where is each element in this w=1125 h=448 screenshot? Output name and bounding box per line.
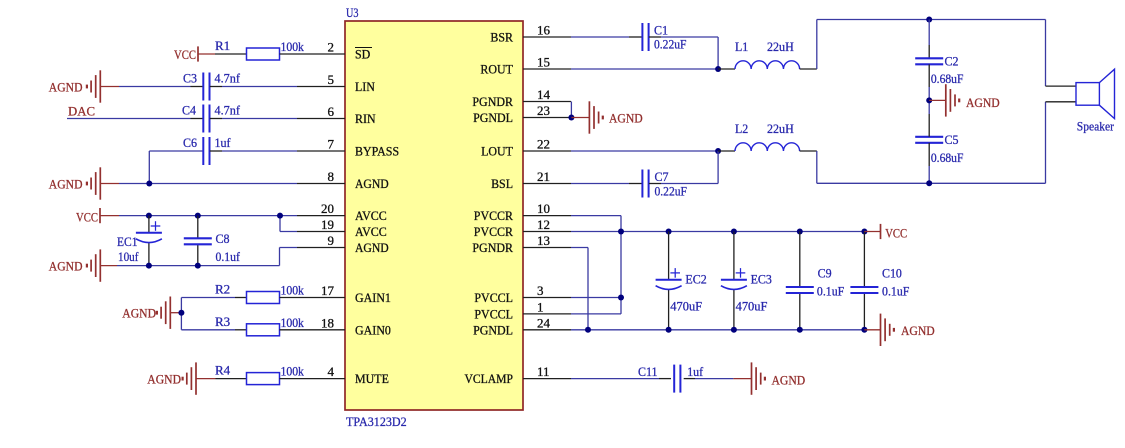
capacitor C8 leads bbox=[197, 216, 199, 239]
pin 22 LOUT (right stub+labels) bbox=[523, 150, 571, 152]
svg-text:16: 16 bbox=[537, 23, 551, 38]
wire pin16 to C1 bbox=[571, 36, 629, 38]
wire speaker stub - bbox=[1046, 101, 1077, 103]
capacitor EC2 bbox=[656, 279, 682, 281]
capacitor C4 bbox=[202, 105, 204, 133]
junction C8 top bbox=[195, 213, 201, 219]
wire R3 left bbox=[181, 329, 235, 331]
svg-text:AGND: AGND bbox=[355, 176, 389, 191]
svg-text:Speaker: Speaker bbox=[1077, 118, 1115, 133]
speaker LS1 symbol bbox=[1076, 83, 1099, 106]
wire L1 riser to top bbox=[816, 20, 818, 70]
wire AVCC top rail bbox=[119, 215, 297, 217]
wire R3 right lead bbox=[280, 329, 298, 331]
junction C9 top bbox=[797, 229, 803, 235]
ground AGND (pin23 row) bbox=[571, 117, 589, 119]
wire GAIN riser bbox=[180, 298, 182, 330]
junction pin19/rail bbox=[277, 213, 283, 219]
wire C7 to LOUT junction bbox=[649, 183, 661, 185]
svg-text:22uH: 22uH bbox=[767, 39, 794, 54]
svg-text:RIN: RIN bbox=[355, 111, 376, 126]
svg-text:AGND: AGND bbox=[609, 111, 643, 126]
wire pin21 to C7 bbox=[571, 183, 629, 185]
junction top wire / C2 bbox=[926, 17, 932, 23]
wire R2 left bbox=[181, 297, 235, 299]
svg-text:100k: 100k bbox=[281, 364, 305, 379]
capacitor C10 bbox=[850, 286, 878, 288]
wire C1 to ROUT junction bbox=[649, 36, 661, 38]
inductor L1 bbox=[735, 61, 800, 69]
junction EC1 bottom bbox=[146, 263, 152, 269]
svg-text:PVCCR: PVCCR bbox=[474, 224, 513, 239]
svg-text:24: 24 bbox=[537, 315, 551, 330]
svg-text:C7: C7 bbox=[655, 169, 669, 184]
wire PVCC riser bbox=[620, 216, 622, 314]
junction C10 top bbox=[861, 229, 867, 235]
pin 1 PVCCL (right stub+labels) bbox=[523, 313, 571, 315]
wire R4 right lead bbox=[280, 378, 298, 380]
svg-text:R1: R1 bbox=[215, 38, 230, 53]
svg-text:VCLAMP: VCLAMP bbox=[465, 371, 514, 386]
wire DAC to C4 bbox=[67, 118, 191, 120]
svg-text:100k: 100k bbox=[281, 39, 305, 54]
junction C6/pin8 bbox=[146, 181, 152, 187]
wire C6 right lead bbox=[210, 150, 222, 152]
svg-text:2: 2 bbox=[328, 40, 335, 55]
svg-text:LOUT: LOUT bbox=[481, 144, 513, 159]
svg-text:AGND: AGND bbox=[49, 80, 83, 95]
svg-text:TPA3123D2: TPA3123D2 bbox=[346, 414, 407, 429]
svg-text:18: 18 bbox=[321, 315, 334, 330]
wire R1 right lead bbox=[280, 53, 298, 55]
wire ROUT to L1 bbox=[571, 68, 718, 70]
svg-text:C9: C9 bbox=[818, 266, 832, 281]
ground AGND (bottom rail) bbox=[99, 249, 101, 281]
ground AGND (C3 row) bbox=[99, 70, 101, 102]
pin 10 PVCCR (right stub+labels) bbox=[523, 215, 571, 217]
ground AGND (GAIN rows) bbox=[169, 297, 171, 329]
svg-text:0.68uF: 0.68uF bbox=[931, 150, 964, 165]
svg-text:C8: C8 bbox=[216, 231, 230, 246]
capacitor EC3 bbox=[721, 279, 747, 281]
svg-text:ROUT: ROUT bbox=[480, 62, 513, 77]
svg-text:11: 11 bbox=[537, 364, 550, 379]
svg-text:GAIN1: GAIN1 bbox=[355, 290, 391, 305]
capacitor EC2 leads bbox=[668, 232, 670, 280]
svg-text:4: 4 bbox=[328, 364, 335, 379]
resistor R1 bbox=[247, 48, 280, 60]
pin 11 VCLAMP (right stub+labels) bbox=[523, 378, 571, 380]
ground AGND (R4 row) bbox=[195, 362, 197, 394]
capacitor C2 bbox=[915, 57, 943, 59]
wire R1 left lead bbox=[215, 53, 247, 55]
wire speaker left vertical bottom bbox=[1045, 102, 1047, 184]
svg-text:14: 14 bbox=[537, 87, 551, 102]
pin 21 BSL (right stub+labels) bbox=[523, 183, 571, 185]
pin 9 AGND (left stub+labels) bbox=[297, 247, 345, 249]
svg-text:R4: R4 bbox=[215, 363, 231, 378]
svg-text:0.68uF: 0.68uF bbox=[931, 71, 964, 86]
pin 5 LIN (left stub+labels) bbox=[297, 86, 345, 88]
svg-text:470uF: 470uF bbox=[736, 298, 768, 313]
svg-text:VCC: VCC bbox=[174, 47, 196, 62]
wire AGND to R4 bbox=[196, 378, 216, 380]
wire PVCC rail bbox=[571, 231, 864, 233]
svg-text:EC2: EC2 bbox=[685, 272, 706, 287]
svg-text:0.22uF: 0.22uF bbox=[654, 37, 687, 52]
capacitor C1 bbox=[641, 23, 643, 51]
svg-text:23: 23 bbox=[537, 103, 550, 118]
wire C4 left lead bbox=[191, 118, 204, 120]
svg-text:C11: C11 bbox=[638, 364, 658, 379]
svg-text:GAIN0: GAIN0 bbox=[355, 322, 391, 337]
inductor L2 bbox=[735, 143, 800, 151]
wire pin10 jog bbox=[571, 215, 621, 217]
svg-text:AVCC: AVCC bbox=[355, 224, 387, 239]
capacitor C6 bbox=[202, 137, 204, 165]
svg-text:C1: C1 bbox=[654, 23, 668, 38]
svg-text:C10: C10 bbox=[882, 266, 902, 281]
capacitor C9 leads bbox=[799, 232, 801, 288]
junction C9 bottom bbox=[797, 327, 803, 333]
wire C5 top lead bbox=[928, 114, 930, 137]
ground AGND (C2/C5) bbox=[929, 99, 946, 101]
wire C11 to AGND bbox=[684, 378, 695, 380]
svg-text:U3: U3 bbox=[346, 5, 359, 20]
wire L1 right lead bbox=[800, 68, 817, 70]
svg-text:AGND: AGND bbox=[901, 323, 935, 338]
wire pin1 row bbox=[571, 313, 621, 315]
svg-text:20: 20 bbox=[321, 201, 334, 216]
svg-text:SD: SD bbox=[355, 47, 370, 62]
wire AGND to pin8 bbox=[100, 183, 119, 185]
capacitor EC1 bbox=[136, 232, 162, 234]
capacitor EC1 leads bbox=[148, 216, 150, 233]
svg-text:R3: R3 bbox=[215, 314, 230, 329]
svg-text:PGNDR: PGNDR bbox=[472, 240, 513, 255]
ground AGND (C11) bbox=[733, 378, 751, 380]
resistor R3 bbox=[247, 324, 280, 336]
pin 18 GAIN0 (left stub+labels) bbox=[297, 329, 345, 331]
wire pin9 jog bbox=[280, 247, 298, 249]
wire L2 riser to bottom bbox=[816, 151, 818, 183]
capacitor C9 bbox=[786, 286, 814, 288]
svg-text:9: 9 bbox=[328, 233, 335, 248]
svg-text:4.7nf: 4.7nf bbox=[215, 71, 241, 86]
wire pin11 to C11 bbox=[571, 378, 659, 380]
svg-text:AGND: AGND bbox=[147, 372, 181, 387]
pin 15 ROUT (right stub+labels) bbox=[523, 68, 571, 70]
svg-text:C3: C3 bbox=[183, 71, 197, 86]
svg-text:13: 13 bbox=[537, 233, 550, 248]
capacitor C11 bbox=[673, 365, 675, 393]
resistor R4 bbox=[247, 373, 280, 385]
capacitor C7 bbox=[641, 170, 643, 198]
wire pin19 riser bbox=[279, 216, 281, 232]
svg-text:0.1uF: 0.1uF bbox=[882, 283, 909, 298]
wire pin14 jog bbox=[570, 102, 572, 118]
svg-text:1: 1 bbox=[537, 299, 544, 314]
wire speaker left vertical top bbox=[1045, 20, 1047, 87]
svg-text:7: 7 bbox=[328, 137, 335, 152]
svg-text:4.7nf: 4.7nf bbox=[215, 103, 241, 118]
svg-text:BSL: BSL bbox=[491, 176, 513, 191]
pin 13 PGNDR (right stub+labels) bbox=[523, 247, 571, 249]
svg-text:5: 5 bbox=[328, 72, 335, 87]
junction bottom wire / C5 bbox=[926, 180, 932, 186]
junction PGND riser/rail bbox=[585, 327, 591, 333]
junction pin3/riser bbox=[618, 295, 624, 301]
pin 14 PGNDR (right stub+labels) bbox=[523, 101, 571, 103]
wire C2 top lead bbox=[928, 20, 930, 46]
junction EC2 top bbox=[666, 229, 672, 235]
wire speaker stub + bbox=[1046, 85, 1077, 87]
svg-text:PGNDR: PGNDR bbox=[472, 94, 513, 109]
svg-text:AGND: AGND bbox=[966, 95, 1000, 110]
pin 3 PVCCL (right stub+labels) bbox=[523, 297, 571, 299]
svg-text:0.22uF: 0.22uF bbox=[655, 184, 688, 199]
svg-text:AGND: AGND bbox=[49, 177, 83, 192]
wire AGND to riser bbox=[170, 312, 181, 314]
junction C8 bottom bbox=[195, 263, 201, 269]
svg-text:19: 19 bbox=[321, 217, 334, 232]
pin 16 BSR (right stub+labels) bbox=[523, 36, 571, 38]
power VCC (AVCC rail) bbox=[99, 208, 101, 223]
svg-text:L1: L1 bbox=[735, 39, 748, 54]
wire AGND to C3 bbox=[100, 86, 119, 88]
svg-text:AVCC: AVCC bbox=[355, 208, 387, 223]
svg-text:22: 22 bbox=[537, 137, 550, 152]
wire C4 right lead bbox=[210, 118, 222, 120]
wire R2 right lead bbox=[280, 297, 298, 299]
svg-text:L2: L2 bbox=[735, 121, 748, 136]
svg-text:BSR: BSR bbox=[490, 30, 513, 45]
capacitor C3 bbox=[202, 73, 204, 101]
svg-text:AGND: AGND bbox=[49, 259, 83, 274]
capacitor EC3 leads bbox=[733, 232, 735, 280]
pin 24 PGNDL (right stub+labels) bbox=[523, 329, 571, 331]
wire pin13 jog bbox=[571, 247, 588, 249]
pin 2 SD (left stub+labels) bbox=[297, 53, 345, 55]
wire L2 right lead bbox=[800, 150, 817, 152]
capacitor C10 leads bbox=[863, 232, 865, 288]
svg-text:PGNDL: PGNDL bbox=[473, 322, 513, 337]
svg-text:MUTE: MUTE bbox=[355, 371, 389, 386]
svg-text:100k: 100k bbox=[281, 315, 305, 330]
svg-text:VCC: VCC bbox=[885, 226, 907, 241]
svg-text:AGND: AGND bbox=[122, 306, 156, 321]
pin 8 AGND (left stub+labels) bbox=[297, 183, 345, 185]
svg-text:PGNDL: PGNDL bbox=[473, 110, 513, 125]
junction EC3 bottom bbox=[731, 327, 737, 333]
junction C2/C5 AGND bbox=[926, 97, 932, 103]
ground AGND (pin8 row) bbox=[99, 167, 101, 199]
svg-text:PVCCL: PVCCL bbox=[474, 290, 513, 305]
pin 7 BYPASS (left stub+labels) bbox=[297, 150, 345, 152]
svg-text:C2: C2 bbox=[945, 54, 959, 69]
junction EC1 top bbox=[146, 213, 152, 219]
junction pin14/pin23 bbox=[568, 115, 574, 121]
svg-text:VCC: VCC bbox=[76, 210, 98, 225]
svg-text:R2: R2 bbox=[215, 282, 230, 297]
svg-text:AGND: AGND bbox=[772, 372, 806, 387]
wire C3 right lead bbox=[210, 86, 222, 88]
svg-text:C6: C6 bbox=[183, 135, 197, 150]
pin 19 AVCC (left stub+labels) bbox=[297, 231, 345, 233]
junction GAIN riser bbox=[178, 310, 184, 316]
svg-text:22uH: 22uH bbox=[767, 121, 794, 136]
svg-text:0.1uF: 0.1uF bbox=[817, 283, 844, 298]
pin 23 PGNDL (right stub+labels) bbox=[523, 117, 571, 119]
svg-text:PVCCR: PVCCR bbox=[474, 208, 513, 223]
pin 17 GAIN1 (left stub+labels) bbox=[297, 297, 345, 299]
wire pin3 row bbox=[571, 297, 621, 299]
wire PGND riser bbox=[587, 248, 589, 330]
svg-text:15: 15 bbox=[537, 55, 550, 70]
svg-text:PVCCL: PVCCL bbox=[474, 306, 513, 321]
svg-text:1uf: 1uf bbox=[215, 135, 232, 150]
svg-text:21: 21 bbox=[537, 169, 550, 184]
capacitor C5 bbox=[915, 136, 943, 138]
svg-text:DAC: DAC bbox=[68, 104, 95, 119]
svg-text:EC1: EC1 bbox=[117, 234, 138, 249]
capacitor C8 bbox=[184, 237, 212, 239]
svg-text:1uf: 1uf bbox=[687, 364, 704, 379]
junction EC2 bottom bbox=[666, 327, 672, 333]
junction C10 bottom bbox=[861, 327, 867, 333]
junction EC3 top bbox=[731, 229, 737, 235]
svg-text:BYPASS: BYPASS bbox=[355, 144, 399, 159]
resistor R2 bbox=[247, 292, 280, 304]
svg-text:6: 6 bbox=[328, 104, 335, 119]
ground AGND (PGND rail) bbox=[864, 329, 880, 331]
svg-text:8: 8 bbox=[328, 169, 335, 184]
op-amp U3 TPA3123D2 IC body bbox=[345, 21, 523, 410]
svg-text:100k: 100k bbox=[281, 283, 305, 298]
power VCC (R1 row) bbox=[197, 46, 199, 61]
svg-text:3: 3 bbox=[537, 283, 544, 298]
pin 20 AVCC (left stub+labels) bbox=[297, 215, 345, 217]
wire L1 left lead bbox=[718, 68, 735, 70]
svg-text:10: 10 bbox=[537, 201, 550, 216]
wire AGND bottom rail bbox=[117, 265, 280, 267]
wire LOUT row bbox=[571, 150, 718, 152]
power VCC (PVCC rail) bbox=[864, 231, 880, 233]
svg-text:C5: C5 bbox=[945, 132, 959, 147]
junction C1/ROUT bbox=[715, 66, 721, 72]
junction PVCC riser/rail bbox=[618, 229, 624, 235]
wire C5 bottom lead bbox=[928, 143, 930, 166]
svg-text:12: 12 bbox=[537, 217, 550, 232]
svg-text:17: 17 bbox=[321, 283, 335, 298]
wire L2 left lead bbox=[718, 150, 735, 152]
wire PGND rail bbox=[571, 329, 864, 331]
pin 12 PVCCR (right stub+labels) bbox=[523, 231, 571, 233]
svg-text:10uf: 10uf bbox=[118, 249, 139, 264]
svg-text:LIN: LIN bbox=[355, 79, 375, 94]
wire C3 left lead bbox=[191, 86, 204, 88]
pin 4 MUTE (left stub+labels) bbox=[297, 378, 345, 380]
svg-text:0.1uf: 0.1uf bbox=[216, 249, 241, 264]
svg-text:AGND: AGND bbox=[355, 240, 389, 255]
svg-text:470uF: 470uF bbox=[670, 298, 702, 313]
junction LOUT/C7 bbox=[715, 148, 721, 154]
svg-text:EC3: EC3 bbox=[751, 272, 772, 287]
pin 6 RIN (left stub+labels) bbox=[297, 118, 345, 120]
wire C6 left lead + drop bbox=[149, 150, 203, 152]
wire C2 bottom lead bbox=[928, 64, 930, 87]
svg-text:C4: C4 bbox=[182, 103, 196, 118]
